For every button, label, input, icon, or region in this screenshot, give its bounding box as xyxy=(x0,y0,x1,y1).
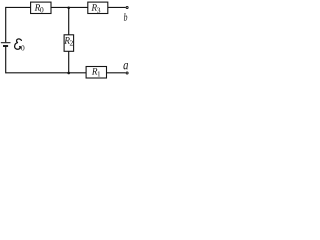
wire top left segment xyxy=(6,6,31,8)
resistor R2 box xyxy=(64,35,74,52)
resistor R0 box xyxy=(31,2,51,13)
label R3 letter R xyxy=(91,4,97,11)
junction node bottom xyxy=(67,72,70,75)
label a xyxy=(123,63,128,69)
junction node top xyxy=(67,6,70,9)
battery E0 short thick plate xyxy=(3,45,8,47)
wire left vertical lower xyxy=(5,46,7,73)
label R0 subscript 0 xyxy=(40,7,43,12)
label R1 letter R xyxy=(92,68,98,75)
terminal a circle xyxy=(126,72,128,74)
wire middle branch lower xyxy=(68,51,70,73)
wire middle branch upper xyxy=(68,7,70,34)
wire top middle segment xyxy=(51,6,88,8)
label R2 subscript 2 xyxy=(70,40,73,45)
battery E0 long thin plate xyxy=(1,42,11,44)
label R2 letter R xyxy=(64,37,70,44)
wire bottom left segment xyxy=(6,72,86,74)
terminal b circle xyxy=(126,7,128,9)
wire left vertical upper xyxy=(5,7,7,42)
wire bottom right segment xyxy=(107,72,126,74)
wire top right segment xyxy=(108,6,126,8)
label E0 subscript 0 xyxy=(21,45,24,50)
resistor R3 box xyxy=(88,2,108,13)
label E0 script-E (emf symbol) xyxy=(15,39,22,49)
resistor R1 box xyxy=(86,67,106,79)
label R3 subscript 3 xyxy=(97,8,100,13)
label R0 letter R xyxy=(35,4,41,11)
label R1 subscript 1 xyxy=(98,71,101,76)
label b xyxy=(124,13,127,21)
